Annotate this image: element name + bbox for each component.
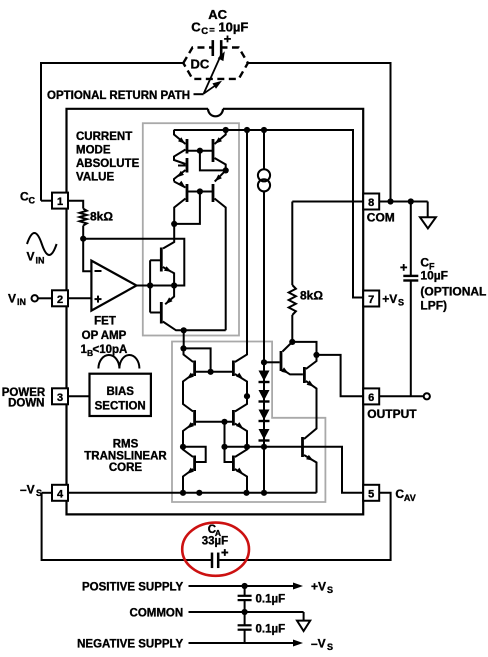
svg-text:8kΩ: 8kΩ (300, 289, 323, 303)
svg-text:BIAS: BIAS (106, 386, 134, 398)
svg-text:ABSOLUTE: ABSOLUTE (76, 158, 140, 170)
svg-text:=: = (209, 25, 215, 36)
svg-text:LPF): LPF) (420, 299, 447, 313)
svg-text:SECTION: SECTION (95, 401, 146, 413)
svg-text:V: V (27, 250, 35, 264)
svg-text:VALUE: VALUE (76, 172, 114, 184)
svg-text:COMMON: COMMON (130, 608, 184, 620)
svg-text:–V: –V (20, 483, 35, 497)
svg-text:5: 5 (368, 488, 374, 500)
svg-text:+V: +V (382, 292, 397, 306)
svg-text:4: 4 (57, 488, 64, 500)
svg-text:0.1µF: 0.1µF (256, 624, 286, 636)
svg-text:IN: IN (17, 297, 26, 307)
svg-text:CORE: CORE (109, 462, 143, 474)
svg-text:S: S (327, 642, 333, 652)
svg-text:8: 8 (368, 197, 374, 209)
svg-text:2: 2 (57, 294, 63, 306)
svg-text:(OPTIONAL: (OPTIONAL (420, 285, 486, 299)
svg-text:DC: DC (191, 57, 210, 72)
svg-text:IN: IN (36, 255, 45, 265)
svg-text:TRANSLINEAR: TRANSLINEAR (84, 451, 167, 463)
svg-text:OP AMP: OP AMP (82, 330, 127, 342)
svg-text:DOWN: DOWN (8, 398, 44, 410)
svg-text:–V: –V (311, 637, 326, 651)
svg-text:0.1µF: 0.1µF (256, 594, 286, 606)
svg-text:8kΩ: 8kΩ (90, 210, 113, 224)
svg-text:AV: AV (404, 493, 416, 503)
svg-text:C: C (191, 19, 201, 34)
svg-text:POSITIVE SUPPLY: POSITIVE SUPPLY (82, 582, 184, 594)
svg-text:C: C (29, 195, 36, 205)
svg-text:7: 7 (368, 294, 374, 306)
svg-text:1: 1 (57, 196, 63, 208)
svg-text:S: S (398, 298, 404, 308)
svg-text:3: 3 (57, 392, 63, 404)
svg-text:+V: +V (311, 580, 326, 594)
svg-text:MODE: MODE (76, 145, 111, 157)
svg-text:C: C (201, 26, 208, 37)
svg-text:CURRENT: CURRENT (76, 131, 132, 143)
svg-text:S: S (327, 585, 333, 595)
svg-text:COM: COM (367, 210, 395, 224)
svg-text:FET: FET (94, 316, 116, 328)
svg-text:NEGATIVE SUPPLY: NEGATIVE SUPPLY (77, 639, 183, 651)
svg-text:OPTIONAL RETURN PATH: OPTIONAL RETURN PATH (47, 90, 190, 102)
svg-text:OUTPUT: OUTPUT (367, 407, 417, 421)
svg-text:10µF: 10µF (218, 19, 248, 34)
svg-text:10µF: 10µF (420, 269, 448, 283)
svg-text:RMS: RMS (113, 439, 139, 451)
svg-text:6: 6 (368, 392, 374, 404)
svg-text:V: V (8, 291, 16, 305)
svg-text:33µF: 33µF (202, 536, 228, 548)
